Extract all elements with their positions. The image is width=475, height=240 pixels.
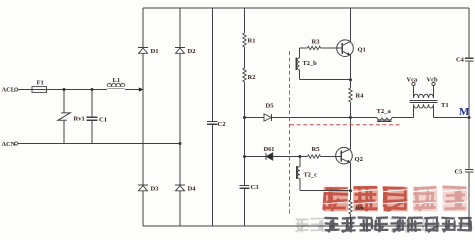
wire R1R2 column top	[244, 8, 246, 33]
svg-text:R4: R4	[356, 93, 365, 100]
wire Q2 collector	[350, 118, 352, 150]
terminal Vca	[412, 82, 415, 85]
terminal Vcb	[432, 82, 435, 85]
svg-text:D1: D1	[151, 48, 159, 55]
svg-text:D61: D61	[264, 146, 275, 153]
svg-text:T2_c: T2_c	[304, 172, 318, 179]
node junction emitter Q1	[349, 78, 352, 81]
svg-text:T2_b: T2_b	[303, 60, 318, 67]
svg-text:C3: C3	[251, 184, 260, 191]
wire ACN to bridge	[18, 143, 180, 145]
resistor R6	[349, 200, 352, 214]
svg-text:R2: R2	[248, 74, 257, 81]
winding T2_b	[296, 48, 299, 80]
wire top rail	[143, 7, 469, 9]
svg-text:F1: F1	[37, 79, 44, 86]
inductor L1	[107, 83, 125, 88]
svg-text:Vca: Vca	[407, 77, 418, 84]
watermark dark gray text 射频和天线设计专家	[324, 217, 471, 232]
svg-text:ACL: ACL	[2, 87, 16, 94]
node junction T2_c	[298, 155, 301, 158]
resistor R2	[243, 68, 246, 82]
node junction D61	[243, 155, 246, 158]
wire D61 to T2_c node	[273, 156, 300, 158]
node junction mid	[349, 116, 352, 119]
resistor R3	[308, 46, 321, 49]
node junction Rv1	[63, 88, 66, 91]
diode D61	[266, 153, 273, 160]
transformer T2 coupling dashed line horizontal	[290, 124, 401, 126]
wire Q1 collector	[350, 8, 352, 42]
watermark red text 易迪拓培训	[323, 187, 467, 212]
wire T2_c node to R5	[300, 156, 308, 158]
wire L1 to bridge with arrow	[125, 87, 143, 91]
wire R6 to bottom rail	[350, 214, 352, 226]
svg-text:T1: T1	[441, 102, 449, 109]
capacitor C3	[240, 185, 250, 226]
node junction emitter Q2	[349, 189, 352, 192]
svg-text:L1: L1	[113, 77, 121, 84]
wire ACL to F1	[18, 89, 32, 91]
svg-text:Q1: Q1	[358, 47, 366, 54]
wire R1 to R2	[244, 47, 246, 68]
node junction D5	[243, 116, 246, 119]
capacitor C2	[207, 8, 218, 226]
wire T2_c bottom to emitter	[299, 190, 301, 191]
transformer T1	[410, 86, 438, 118]
svg-text:C2: C2	[218, 121, 227, 128]
winding T2_c	[297, 157, 300, 190]
svg-text:T2_a: T2_a	[377, 108, 392, 115]
svg-text:Q2: Q2	[355, 156, 364, 163]
svg-text:M: M	[459, 106, 470, 118]
wire Q2 emitter	[350, 163, 352, 201]
wire F1 to L1	[47, 89, 108, 91]
svg-text:C4: C4	[456, 57, 465, 64]
diode D4	[175, 185, 185, 191]
wire D5 to mid node	[272, 117, 351, 119]
node junction C1	[91, 88, 94, 91]
resistor R5	[308, 155, 321, 158]
capacitor C1	[87, 90, 98, 144]
svg-text:C1: C1	[99, 117, 107, 124]
wire T2_b bottom to emitter	[300, 79, 351, 81]
capacitor C4	[465, 8, 474, 118]
wire T1 to M	[434, 117, 470, 119]
watermark light gray text 电源和天线设计专家	[296, 218, 436, 232]
wire mid row left	[245, 117, 265, 119]
transistor Q1	[337, 40, 354, 57]
wire bridge right column	[179, 8, 181, 226]
diode D1	[138, 48, 148, 54]
svg-text:ACN: ACN	[2, 141, 16, 148]
resistor R4	[349, 88, 352, 102]
svg-text:C5: C5	[455, 169, 463, 176]
capacitor C5	[465, 118, 474, 226]
wire T2_a to T1	[392, 117, 414, 119]
inductor T2_a	[377, 118, 392, 122]
resistor R1	[243, 33, 246, 47]
svg-text:D3: D3	[151, 186, 160, 193]
svg-text:D4: D4	[188, 186, 197, 193]
wire R3 to Q1 base	[321, 47, 338, 49]
svg-text:R1: R1	[248, 38, 256, 45]
svg-text:R3: R3	[312, 38, 321, 45]
svg-text:Vcb: Vcb	[427, 77, 438, 84]
svg-text:R5: R5	[312, 146, 321, 153]
node M	[468, 116, 471, 119]
wire mid node to T2_a	[351, 117, 378, 119]
wire T2_b node to R3	[300, 47, 308, 49]
svg-text:Rv1: Rv1	[74, 116, 85, 123]
varistor Rv1	[58, 90, 71, 144]
wire D61 row left	[245, 156, 266, 158]
terminal ACL	[15, 88, 18, 91]
svg-text:R6: R6	[356, 205, 365, 212]
wire R2 down	[244, 82, 246, 185]
diode D5	[264, 114, 272, 121]
diode D3	[138, 185, 148, 191]
transformer T2 coupling dashed line vertical	[289, 51, 291, 216]
svg-text:D5: D5	[266, 103, 275, 110]
wire bottom rail	[143, 225, 469, 227]
wire R5 to Q2 base	[321, 156, 337, 158]
wire Q1 emitter	[350, 55, 352, 88]
wire bridge left column	[142, 8, 144, 226]
diode D2	[175, 48, 185, 54]
wire R4 to mid node	[350, 102, 352, 118]
fuse F1	[32, 87, 47, 93]
svg-text:D2: D2	[188, 48, 197, 55]
node junction ACN bridge	[179, 142, 182, 145]
transistor Q2	[336, 147, 353, 164]
terminal ACN	[15, 142, 18, 145]
